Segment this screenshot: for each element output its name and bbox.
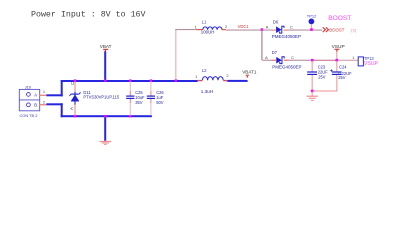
- wire top rail VBAT (thick): [61, 80, 198, 82]
- pin 2 stub: [40, 104, 47, 105]
- wire top row right segment: [284, 30, 323, 31]
- inductor L1: [195, 20, 228, 35]
- svg-text:D7: D7: [272, 50, 278, 55]
- svg-text:2: 2: [43, 100, 46, 105]
- svg-text:[3]: [3]: [351, 28, 355, 33]
- svg-text:100UH: 100UH: [201, 30, 215, 35]
- wire left bottom corner vertical: [61, 103, 63, 117]
- wire VBAT vertical (thick): [104, 51, 106, 80]
- diode D7 symbol: [276, 57, 284, 64]
- svg-text:2: 2: [225, 24, 228, 29]
- junction dot VSUP/C24: [336, 59, 339, 62]
- svg-text:CON TB 2: CON TB 2: [20, 113, 38, 118]
- svg-text:A: A: [265, 55, 268, 60]
- junction dots bottom rail: [74, 115, 132, 117]
- svg-text:1: 1: [195, 24, 198, 29]
- wire VSUP drop: [336, 52, 337, 61]
- svg-text:VBAT1: VBAT1: [242, 70, 257, 75]
- capacitor C23 top wire: [312, 61, 313, 72]
- svg-text:VSUP: VSUP: [364, 61, 379, 67]
- capacitor C23 plates: [307, 71, 317, 72]
- capacitor C24 polarity +: [330, 69, 332, 71]
- svg-text:D6: D6: [273, 20, 279, 25]
- connector J10: [19, 84, 39, 118]
- power port VBAT1: [242, 70, 257, 78]
- svg-text:A: A: [34, 92, 37, 97]
- svg-text:VBAT: VBAT: [100, 44, 112, 49]
- capacitor C24 plates: [332, 71, 342, 72]
- capacitor C25 top wire: [130, 82, 131, 91]
- svg-text:C: C: [70, 82, 75, 85]
- svg-text:25V: 25V: [318, 75, 326, 80]
- wire left top corner vertical: [61, 80, 63, 96]
- power port VBAT: [100, 44, 112, 52]
- test point TP12: [307, 13, 317, 29]
- svg-text:1: 1: [352, 55, 355, 60]
- svg-text:PMEG4050EP: PMEG4050EP: [272, 34, 301, 39]
- TVS diode D11 symbol: [70, 92, 81, 101]
- svg-text:PMEG4050EP: PMEG4050EP: [272, 65, 301, 70]
- off-page connector BOOST: [323, 27, 329, 32]
- ground symbol right: [307, 96, 318, 101]
- capacitor C24 bottom wire: [336, 75, 337, 91]
- svg-text:C: C: [291, 55, 294, 60]
- junction dots top rail: [74, 79, 177, 81]
- svg-text:50V: 50V: [156, 100, 164, 105]
- diode D6 symbol: [276, 26, 284, 33]
- svg-text:BOOST: BOOST: [329, 28, 344, 33]
- junction dot C23: [311, 59, 314, 62]
- wire ground drop left (thick): [104, 117, 106, 141]
- pin 1 stub: [40, 95, 47, 96]
- junction dot bottom join: [311, 90, 314, 93]
- svg-text:1: 1: [195, 74, 198, 79]
- TVS diode D11 lead wire: [74, 82, 75, 92]
- wire C23-C24 bottom join: [312, 90, 338, 91]
- inductor L2: [195, 68, 229, 94]
- capacitor C26 bottom wire: [150, 99, 151, 103]
- capacitor C26 plates: [147, 96, 155, 97]
- power port VSUP: [332, 44, 345, 52]
- svg-text:PTVS30VP1UP,115: PTVS30VP1UP,115: [83, 94, 120, 99]
- wire top row middle segment: [226, 30, 276, 31]
- wire D7 cathode row: [284, 60, 313, 61]
- wire bottom rail (thick): [61, 115, 152, 117]
- svg-text:25V: 25V: [338, 75, 346, 80]
- test point TP13: [352, 55, 374, 66]
- capacitor C23 bottom wire: [312, 75, 313, 91]
- svg-text:C24: C24: [339, 64, 347, 69]
- wire top row left segment: [175, 29, 196, 30]
- svg-text:2: 2: [226, 73, 229, 78]
- svg-text:35V: 35V: [135, 100, 143, 105]
- svg-text:A: A: [69, 107, 74, 110]
- wire pin2 horizontal: [46, 103, 62, 105]
- capacitor C24 top wire: [336, 61, 337, 72]
- capacitor C25 plates: [126, 96, 134, 97]
- svg-text:1: 1: [43, 89, 46, 94]
- junction node VDC1: [261, 28, 264, 31]
- svg-text:A: A: [266, 24, 269, 29]
- svg-text:J10: J10: [25, 84, 32, 89]
- svg-text:VDC1: VDC1: [238, 24, 250, 29]
- capacitor C25 bottom wire: [130, 99, 131, 103]
- svg-text:TP12: TP12: [307, 13, 317, 18]
- ground symbol left: [99, 141, 111, 145]
- svg-text:Power Input : 8V to 16V: Power Input : 8V to 16V: [31, 11, 146, 20]
- svg-text:BOOST: BOOST: [328, 15, 351, 22]
- capacitor C26 top wire: [150, 82, 151, 91]
- wire D7 anode segment: [262, 60, 276, 61]
- svg-text:C: C: [290, 24, 293, 29]
- wire vertical to D7 row: [261, 30, 262, 61]
- wire riser to top row: [175, 30, 176, 80]
- svg-text:1.3uH: 1.3uH: [201, 89, 213, 94]
- wire L2 to VBAT1 (thick): [227, 80, 247, 82]
- wire pin1 horizontal: [46, 94, 62, 96]
- svg-text:L2: L2: [202, 68, 207, 73]
- svg-text:B: B: [34, 103, 37, 108]
- svg-text:L1: L1: [202, 20, 207, 25]
- wire ground drop right: [312, 92, 313, 96]
- junction dot TP12: [310, 28, 313, 31]
